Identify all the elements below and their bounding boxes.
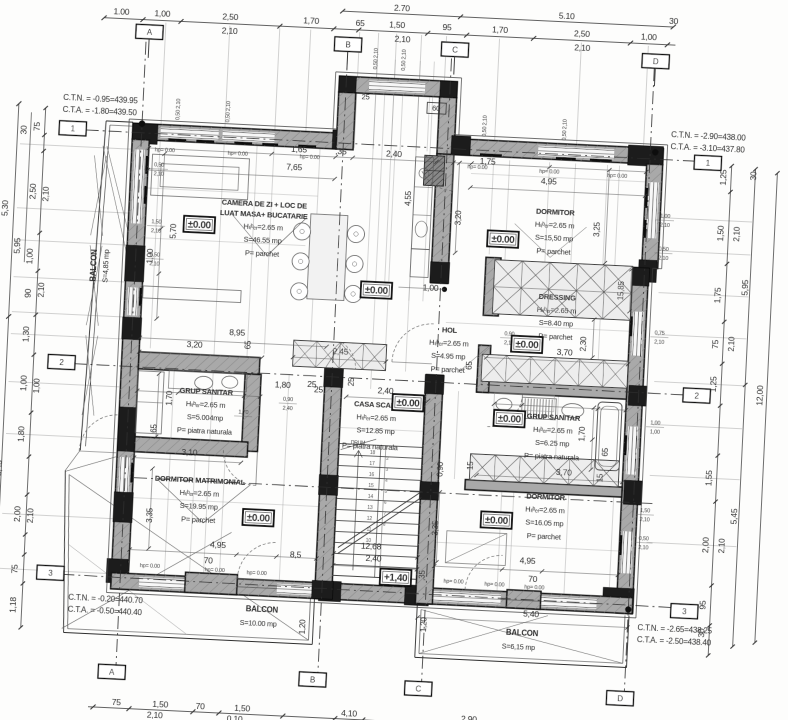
svg-text:17: 17 — [369, 461, 375, 467]
svg-text:5,45: 5,45 — [729, 508, 740, 525]
svg-text:1,30: 1,30 — [20, 326, 31, 343]
svg-text:S=15,50 mp: S=15,50 mp — [535, 233, 574, 244]
svg-text:1,20: 1,20 — [298, 619, 308, 635]
svg-text:0,90: 0,90 — [283, 397, 293, 403]
svg-text:hp= 0.00: hp= 0.00 — [484, 582, 504, 589]
svg-text:1,70: 1,70 — [303, 15, 320, 26]
svg-text:13: 13 — [367, 505, 373, 511]
svg-text:hp= 0.00: hp= 0.00 — [155, 147, 175, 154]
svg-text:65: 65 — [355, 18, 365, 28]
svg-text:DRESSING: DRESSING — [538, 292, 576, 303]
svg-text:hp= 0.00: hp= 0.00 — [443, 579, 463, 586]
svg-text:0,50: 0,50 — [659, 247, 669, 253]
svg-text:S=12.85 mp: S=12.85 mp — [356, 425, 395, 436]
svg-text:hp= 0.00: hp= 0.00 — [228, 151, 248, 158]
svg-text:3,70: 3,70 — [556, 347, 573, 358]
svg-text:2,50: 2,50 — [222, 11, 239, 22]
svg-text:3,35: 3,35 — [145, 507, 155, 523]
svg-text:2,40: 2,40 — [365, 553, 382, 564]
svg-text:S=46.55 mp: S=46.55 mp — [243, 235, 282, 246]
svg-text:±0.00: ±0.00 — [365, 285, 389, 297]
svg-text:65: 65 — [601, 447, 610, 457]
svg-text:75: 75 — [32, 121, 42, 131]
svg-text:4,95: 4,95 — [519, 555, 536, 566]
svg-text:2,10: 2,10 — [149, 261, 159, 267]
svg-text:2,10: 2,10 — [37, 282, 47, 298]
svg-text:0,50 2,10: 0,50 2,10 — [175, 99, 182, 121]
svg-text:5,40: 5,40 — [523, 608, 540, 619]
svg-text:,35: ,35 — [417, 569, 427, 581]
svg-text:0,75: 0,75 — [654, 330, 664, 336]
svg-text:+1,40: +1,40 — [384, 572, 409, 584]
svg-text:1,25: 1,25 — [708, 376, 719, 393]
svg-text:12,68: 12,68 — [361, 541, 382, 552]
svg-text:1,50: 1,50 — [389, 19, 406, 30]
svg-text:2,10: 2,10 — [151, 228, 161, 234]
svg-text:8,95: 8,95 — [229, 327, 246, 338]
svg-text:2,10: 2,10 — [654, 339, 664, 345]
svg-text:±0.00: ±0.00 — [515, 339, 539, 351]
svg-text:70: 70 — [195, 701, 205, 711]
svg-text:3,20: 3,20 — [454, 210, 464, 226]
svg-text:S=19.95 mp: S=19.95 mp — [180, 501, 219, 512]
svg-text:4,95: 4,95 — [541, 176, 558, 187]
svg-text:60: 60 — [432, 104, 440, 113]
svg-text:DORMITOR: DORMITOR — [526, 492, 566, 503]
svg-text:3,35: 3,35 — [431, 520, 441, 536]
svg-text:1,00: 1,00 — [641, 31, 658, 42]
svg-text:Hₗᵢᵇₑᵣ=2.65 m: Hₗᵢᵇₑᵣ=2.65 m — [535, 220, 575, 231]
svg-text:4,10: 4,10 — [341, 708, 358, 719]
svg-text:hp= 0.00: hp= 0.00 — [140, 563, 160, 570]
svg-text:S=6.25 mp: S=6.25 mp — [535, 438, 570, 449]
svg-text:5,70: 5,70 — [169, 223, 179, 239]
svg-text:3,70: 3,70 — [556, 467, 573, 478]
svg-text:4,95: 4,95 — [210, 539, 227, 550]
svg-text:5,95: 5,95 — [739, 279, 750, 296]
svg-text:Hₗᵢᵇₑᵣ=2.65 m: Hₗᵢᵇₑᵣ=2.65 m — [356, 412, 396, 423]
svg-text:5,95: 5,95 — [12, 237, 23, 254]
svg-text:70: 70 — [528, 574, 538, 584]
svg-text:2.70: 2.70 — [394, 3, 411, 14]
svg-text:2,40: 2,40 — [386, 148, 403, 159]
svg-text:1,50: 1,50 — [640, 508, 650, 514]
svg-text:25: 25 — [307, 379, 317, 389]
svg-text:2,10: 2,10 — [147, 710, 164, 720]
svg-text:1,00: 1,00 — [32, 378, 42, 394]
svg-text:75: 75 — [9, 564, 19, 574]
svg-text:±0.00: ±0.00 — [491, 234, 515, 246]
svg-text:1,00: 1,00 — [650, 429, 660, 435]
svg-text:15: 15 — [466, 461, 475, 471]
svg-text:5.10: 5.10 — [559, 11, 576, 22]
svg-text:2,10: 2,10 — [640, 517, 650, 523]
svg-text:2,50: 2,50 — [574, 28, 591, 39]
svg-text:0,50 2,10: 0,50 2,10 — [225, 101, 232, 123]
svg-text:P= parchet: P= parchet — [536, 246, 570, 257]
svg-text:2,10: 2,10 — [638, 545, 648, 551]
svg-text:16: 16 — [369, 472, 375, 478]
svg-text:0,50 2,10: 0,50 2,10 — [562, 119, 569, 141]
svg-text:4,55: 4,55 — [403, 190, 413, 206]
svg-text:0,50 2,10: 0,50 2,10 — [482, 115, 489, 137]
svg-text:2,10: 2,10 — [154, 171, 164, 177]
svg-text:30: 30 — [748, 171, 758, 181]
svg-text:D: D — [617, 694, 623, 703]
svg-text:BALCON: BALCON — [88, 249, 99, 282]
svg-text:Hₗᵢᵇₑᵣ=2.65 m: Hₗᵢᵇₑᵣ=2.65 m — [525, 504, 565, 515]
svg-text:2,10: 2,10 — [26, 507, 36, 523]
svg-text:0,50: 0,50 — [154, 162, 164, 168]
svg-text:±0.00: ±0.00 — [187, 220, 211, 232]
svg-text:S=6,15 mp: S=6,15 mp — [502, 642, 536, 653]
svg-text:C: C — [415, 685, 421, 694]
svg-text:90: 90 — [23, 288, 33, 298]
svg-text:2,10: 2,10 — [574, 42, 591, 53]
svg-text:Hₗᵢᵇₑᵣ=2.65 m: Hₗᵢᵇₑᵣ=2.65 m — [533, 425, 573, 436]
svg-text:2,10: 2,10 — [660, 223, 670, 229]
svg-text:2,00: 2,00 — [12, 506, 23, 523]
svg-text:1,18: 1,18 — [7, 596, 18, 613]
svg-text:Hₗᵢᵇₑᵣ=2.65 m: Hₗᵢᵇₑᵣ=2.65 m — [180, 488, 220, 499]
svg-text:2,45: 2,45 — [332, 346, 349, 357]
svg-text:3,10: 3,10 — [181, 447, 198, 458]
svg-text:±0.00: ±0.00 — [246, 513, 270, 525]
svg-text:S=10.00 mp: S=10.00 mp — [240, 618, 278, 629]
svg-text:Hₗᵢᵇₑᵣ=2.65 m: Hₗᵢᵇₑᵣ=2.65 m — [537, 305, 577, 316]
svg-text:hp= 0.00: hp= 0.00 — [246, 570, 266, 577]
svg-text:95: 95 — [697, 600, 707, 610]
svg-text:30: 30 — [18, 125, 28, 135]
svg-text:0,50: 0,50 — [150, 252, 160, 258]
svg-text:1,70: 1,70 — [165, 390, 175, 406]
svg-text:hp= 0.00: hp= 0.00 — [607, 173, 627, 180]
svg-text:0,10: 0,10 — [226, 713, 243, 720]
svg-text:1,50: 1,50 — [715, 225, 726, 242]
svg-text:1,75: 1,75 — [712, 287, 723, 304]
svg-text:±0.00: ±0.00 — [498, 414, 522, 426]
svg-text:2,40: 2,40 — [377, 385, 394, 396]
svg-text:±0.00: ±0.00 — [396, 398, 420, 410]
svg-text:2,10: 2,10 — [41, 186, 51, 202]
svg-text:1,70: 1,70 — [577, 426, 587, 442]
svg-text:1,00: 1,00 — [18, 375, 29, 392]
svg-text:DORMITOR: DORMITOR — [536, 207, 576, 218]
svg-text:C: C — [452, 46, 458, 55]
svg-text:75: 75 — [112, 697, 122, 707]
svg-text:P= parchet: P= parchet — [527, 531, 561, 542]
svg-text:1.00: 1.00 — [113, 6, 130, 17]
svg-text:1,55: 1,55 — [703, 470, 714, 487]
svg-text:0,90: 0,90 — [435, 461, 445, 477]
svg-text:2,10: 2,10 — [732, 226, 742, 242]
svg-text:P= parchet: P= parchet — [245, 248, 279, 259]
svg-text:2,10: 2,10 — [222, 25, 239, 36]
svg-text:1,00: 1,00 — [24, 248, 35, 265]
svg-text:1,00: 1,00 — [650, 420, 660, 426]
svg-text:Hₗᵢᵇₑᵣ=2.65 m: Hₗᵢᵇₑᵣ=2.65 m — [186, 399, 226, 410]
svg-text:15,85: 15,85 — [616, 280, 626, 300]
svg-text:2,10: 2,10 — [658, 256, 668, 262]
svg-text:70: 70 — [203, 555, 213, 565]
svg-text:2,10: 2,10 — [394, 34, 411, 45]
svg-text:1,50: 1,50 — [152, 699, 169, 710]
svg-text:,35: ,35 — [335, 146, 347, 157]
svg-text:1,20: 1,20 — [419, 616, 429, 632]
svg-text:BALCON: BALCON — [506, 628, 539, 639]
svg-text:1,00: 1,00 — [422, 282, 439, 293]
svg-text:D: D — [653, 57, 659, 66]
svg-text:12: 12 — [367, 516, 373, 522]
svg-text:2,10: 2,10 — [717, 538, 727, 554]
svg-text:7,65: 7,65 — [286, 162, 303, 173]
svg-text:P= parchet: P= parchet — [430, 364, 464, 375]
svg-text:1,00: 1,00 — [660, 214, 670, 220]
svg-text:0,50: 0,50 — [639, 536, 649, 542]
svg-text:65: 65 — [465, 360, 474, 370]
svg-text:±0.00: ±0.00 — [485, 515, 509, 527]
svg-text:5,30: 5,30 — [0, 200, 10, 217]
svg-text:DRUM: DRUM — [351, 440, 366, 447]
svg-text:S=4,85 mp: S=4,85 mp — [100, 249, 111, 283]
svg-text:B: B — [345, 41, 351, 50]
svg-text:Hₗᵢᵇₑᵣ=2.65 m: Hₗᵢᵇₑᵣ=2.65 m — [429, 338, 469, 349]
svg-text:0,50 2,10: 0,50 2,10 — [373, 48, 380, 70]
svg-text:2,10: 2,10 — [727, 336, 737, 352]
svg-text:2,90: 2,90 — [461, 714, 478, 720]
svg-text:14: 14 — [368, 494, 374, 500]
svg-text:1,70: 1,70 — [238, 410, 248, 416]
svg-text:hp= 0.00: hp= 0.00 — [467, 164, 487, 171]
svg-text:25: 25 — [361, 92, 369, 101]
svg-text:BALCON: BALCON — [246, 604, 279, 615]
svg-text:1,65: 1,65 — [291, 144, 308, 155]
svg-text:S=8.40 mp: S=8.40 mp — [539, 318, 574, 329]
svg-text:hp= 0.00: hp= 0.00 — [524, 585, 544, 592]
svg-text:S=4.95 mp: S=4.95 mp — [431, 351, 466, 362]
svg-text:0,50 2,10: 0,50 2,10 — [401, 49, 408, 71]
svg-text:8,5: 8,5 — [290, 549, 302, 560]
svg-text:1,50: 1,50 — [151, 219, 161, 225]
svg-text:P= parchet: P= parchet — [181, 514, 215, 525]
svg-text:25: 25 — [347, 377, 356, 387]
svg-text:hp= 0.00: hp= 0.00 — [299, 154, 319, 161]
svg-text:2,30: 2,30 — [579, 336, 589, 352]
svg-text:3,25: 3,25 — [592, 221, 602, 237]
svg-text:S=5.004mp: S=5.004mp — [187, 412, 224, 423]
svg-text:30: 30 — [669, 16, 679, 26]
svg-text:B: B — [310, 676, 316, 685]
svg-text:65: 65 — [149, 423, 158, 433]
svg-text:hp= 0.00: hp= 0.00 — [539, 169, 559, 176]
svg-text:1,80: 1,80 — [275, 379, 292, 390]
svg-text:1,50: 1,50 — [234, 703, 251, 714]
svg-text:1,70: 1,70 — [492, 24, 509, 35]
svg-text:3,20: 3,20 — [186, 339, 203, 350]
svg-text:S=16.05 mp: S=16.05 mp — [525, 518, 564, 529]
svg-text:HOL: HOL — [442, 325, 458, 335]
svg-text:15: 15 — [368, 483, 374, 489]
svg-text:2,50: 2,50 — [27, 183, 38, 200]
svg-text:Hₗᵢᵇₑᵣ=2.65 m: Hₗᵢᵇₑᵣ=2.65 m — [243, 222, 283, 233]
svg-text:65: 65 — [243, 340, 252, 350]
svg-text:2,00: 2,00 — [700, 537, 711, 554]
svg-text:1,80: 1,80 — [16, 426, 27, 443]
svg-text:75: 75 — [710, 339, 720, 349]
svg-text:1,00: 1,00 — [154, 8, 171, 19]
svg-text:2,40: 2,40 — [282, 406, 292, 412]
svg-text:1,25: 1,25 — [718, 169, 729, 186]
svg-text:15: 15 — [595, 473, 604, 483]
svg-text:95: 95 — [442, 22, 452, 32]
svg-text:hp= 0.00: hp= 0.00 — [205, 567, 225, 574]
svg-text:12,00: 12,00 — [754, 385, 765, 406]
